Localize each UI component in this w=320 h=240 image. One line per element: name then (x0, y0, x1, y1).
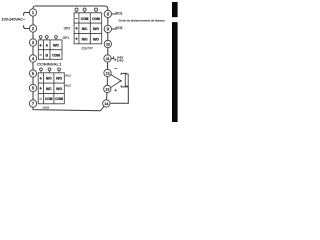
svg-text:COM: COM (52, 53, 60, 57)
terminal 6 (29, 84, 36, 91)
svg-text:N/O: N/O (46, 77, 52, 81)
screw terminals AUX (41, 71, 59, 73)
terminal 2 (29, 25, 36, 32)
terminal 5 (29, 70, 36, 77)
svg-text:AU1: AU1 (65, 73, 71, 77)
terminal circles with numbers (29, 9, 111, 107)
svg-text:1-5V: 1-5V (117, 58, 123, 62)
svg-text:N/O: N/O (82, 38, 88, 42)
terminal 13 (104, 85, 111, 92)
terminal 8 (104, 10, 111, 17)
svg-text:+: + (75, 37, 78, 42)
screw terminals COMM/AL1 (41, 38, 56, 40)
svg-text:−: − (39, 96, 42, 101)
svg-text:COM: COM (45, 97, 53, 101)
svg-text:+: + (75, 26, 78, 31)
OUTP cell value labels (63, 16, 100, 50)
wire bottom from terminal 7 to terminal 14 (33, 104, 106, 111)
polarity + terminal 13 (114, 89, 117, 92)
svg-text:100-240VAC~: 100-240VAC~ (2, 17, 26, 21)
terminal block OUTP (74, 8, 102, 44)
svg-text:Sortie de déclenchement de thy: Sortie de déclenchement de thyristor (119, 19, 166, 23)
svg-text:N/O: N/O (56, 87, 62, 91)
COMM/AL1 cell value labels (37, 43, 63, 66)
svg-text:+: + (39, 43, 42, 48)
svg-text:N/O: N/O (56, 77, 62, 81)
svg-text:IO2: IO2 (117, 26, 122, 30)
resistor RTD body (125, 74, 128, 86)
svg-text:+: + (39, 86, 42, 91)
terminal 3 (29, 39, 36, 46)
svg-text:AU2: AU2 (65, 84, 71, 88)
terminal block COMM/AL1 (38, 36, 62, 60)
thermocouple junction arrowhead (120, 80, 122, 82)
wire left chain 1-7 (32, 13, 34, 104)
svg-text:OP1: OP1 (63, 36, 70, 40)
terminal 12 (104, 69, 111, 76)
svg-text:IO1: IO1 (117, 12, 122, 16)
polarity + terminal 11 (114, 59, 117, 62)
polarity - terminal 12 (114, 68, 117, 70)
thermocouple leg from terminal 12 (111, 75, 121, 81)
svg-text:OP2: OP2 (64, 27, 71, 31)
svg-text:COM: COM (92, 17, 100, 21)
wire input terminal 11 (111, 56, 113, 58)
black page edge bar bottom (172, 22, 178, 122)
RTD bottom lead and wire to terminal 14 (110, 85, 128, 103)
terminal 10 (104, 40, 111, 47)
terminal pin numbers 1-14 (32, 10, 111, 106)
svg-text:COM: COM (55, 97, 63, 101)
wire power hook N (24, 25, 30, 28)
terminal 7 (29, 100, 36, 107)
terminal 1 (29, 9, 36, 16)
terminal block AUX (38, 68, 64, 104)
wire output IO1 (112, 12, 117, 14)
wire output IO2 (112, 27, 117, 29)
svg-text:COMM/AL1: COMM/AL1 (37, 62, 63, 66)
wire top from terminal 1 to terminal 8 (33, 6, 108, 14)
terminal 11 (104, 55, 111, 62)
wire power hook L (24, 13, 30, 16)
svg-text:OUTP: OUTP (82, 45, 94, 50)
thermocouple leg from terminal 13 (111, 81, 121, 87)
svg-text:N/O: N/O (93, 38, 99, 42)
AUX cell value labels (39, 73, 71, 109)
svg-text:N/C: N/C (82, 27, 88, 31)
svg-text:+: + (39, 76, 42, 81)
svg-text:AUX: AUX (43, 106, 49, 110)
svg-text:N/C: N/C (46, 87, 52, 91)
RTD top lead (121, 73, 127, 75)
black page edge bar top (172, 2, 178, 17)
svg-text:N/O: N/O (53, 44, 59, 48)
svg-text:−: − (75, 16, 78, 21)
screw terminals OUTP (77, 11, 97, 13)
wire right chain 8-14 (106, 14, 108, 104)
terminal 4 (29, 55, 36, 62)
svg-text:COM: COM (81, 17, 89, 21)
terminal 14 (103, 100, 110, 107)
terminal 9 (104, 25, 111, 32)
svg-text:N/O: N/O (93, 27, 99, 31)
svg-text:−: − (39, 53, 42, 58)
